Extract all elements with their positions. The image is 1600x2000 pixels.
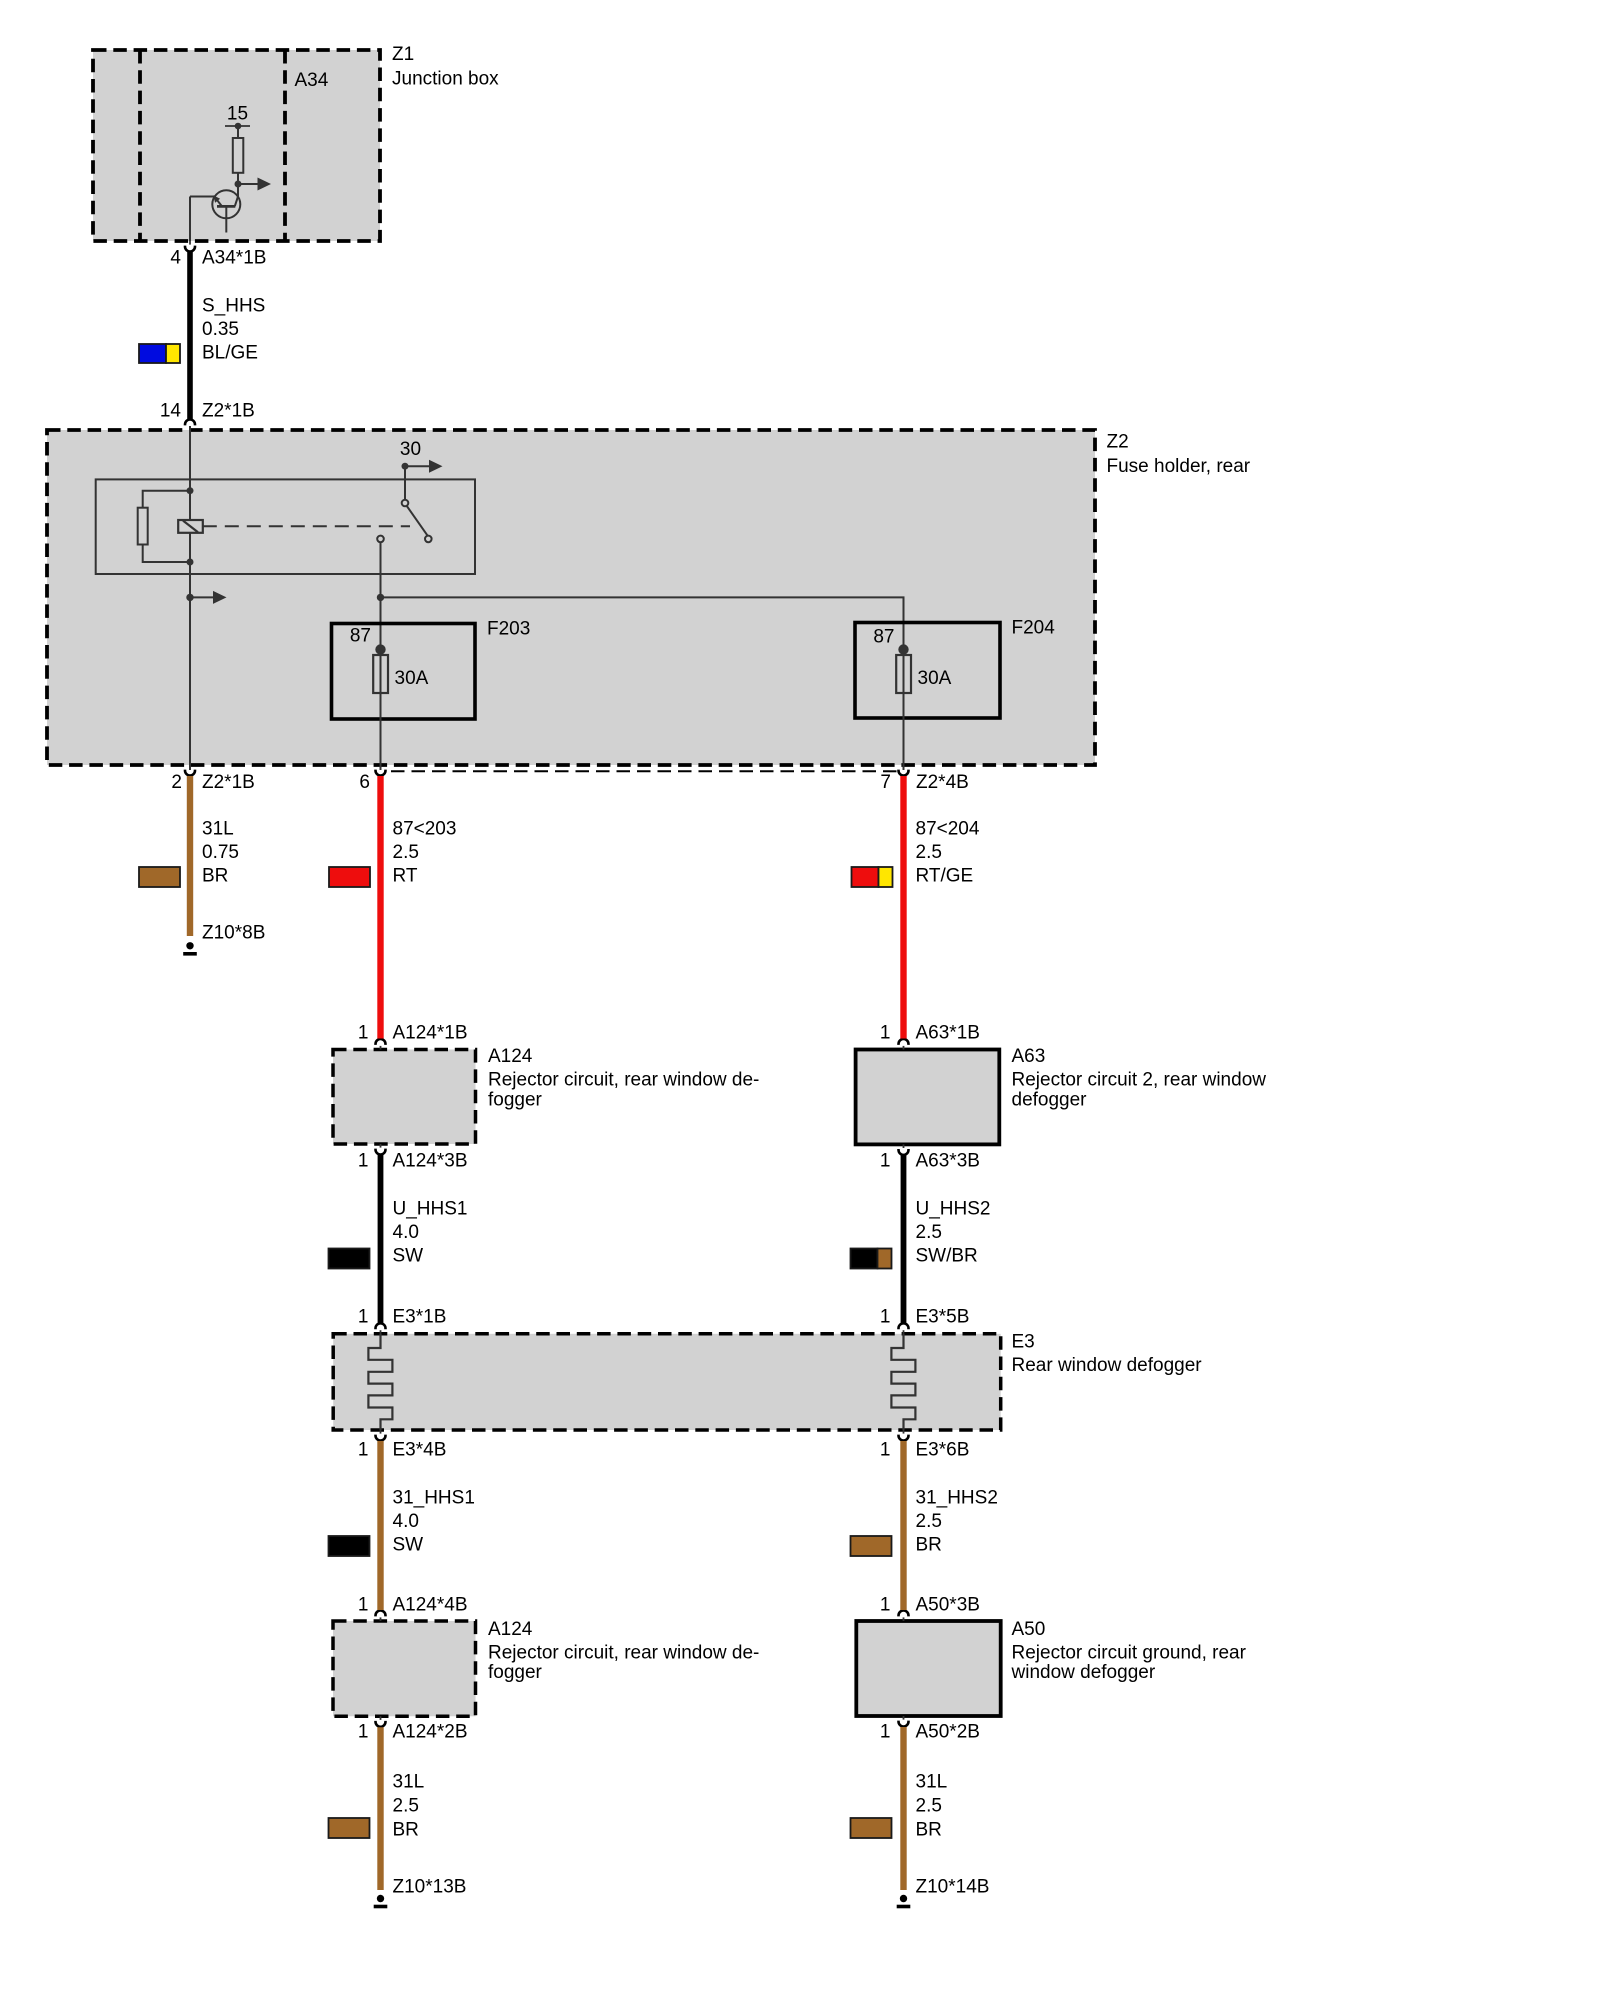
svg-text:A34: A34 — [295, 70, 329, 91]
svg-text:31_HHS1: 31_HHS1 — [393, 1488, 475, 1509]
svg-text:A124: A124 — [488, 1046, 533, 1067]
svg-text:Fuse holder, rear: Fuse holder, rear — [1107, 456, 1251, 477]
svg-text:E3*6B: E3*6B — [916, 1440, 970, 1461]
svg-text:A63: A63 — [1012, 1046, 1046, 1067]
svg-text:31_HHS2: 31_HHS2 — [916, 1488, 998, 1509]
svg-text:RT/GE: RT/GE — [916, 866, 974, 887]
svg-text:Junction box: Junction box — [392, 69, 499, 90]
svg-text:U_HHS2: U_HHS2 — [916, 1199, 991, 1220]
svg-text:2: 2 — [171, 772, 182, 793]
svg-text:31L: 31L — [202, 819, 234, 840]
svg-text:1: 1 — [880, 1595, 891, 1616]
svg-text:A63*1B: A63*1B — [916, 1023, 980, 1044]
svg-text:A124*1B: A124*1B — [393, 1023, 468, 1044]
svg-text:2.5: 2.5 — [916, 1222, 942, 1243]
svg-text:E3: E3 — [1012, 1332, 1035, 1353]
svg-text:F203: F203 — [487, 619, 530, 640]
svg-text:30A: 30A — [395, 668, 429, 689]
svg-text:A34*1B: A34*1B — [202, 248, 266, 269]
svg-text:BR: BR — [393, 1820, 419, 1841]
svg-text:1: 1 — [358, 1151, 369, 1172]
svg-text:1: 1 — [358, 1307, 369, 1328]
svg-text:1: 1 — [880, 1151, 891, 1172]
svg-text:A124: A124 — [488, 1619, 533, 1640]
svg-text:Rejector circuit 2, rear windo: Rejector circuit 2, rear window — [1012, 1070, 1267, 1091]
svg-text:Z1: Z1 — [392, 44, 414, 65]
svg-text:BR: BR — [916, 1535, 942, 1556]
svg-text:S_HHS: S_HHS — [202, 296, 265, 317]
svg-text:1: 1 — [358, 1722, 369, 1743]
svg-text:A50: A50 — [1012, 1619, 1046, 1640]
svg-text:fogger: fogger — [488, 1662, 543, 1683]
svg-text:E3*1B: E3*1B — [393, 1307, 447, 1328]
svg-text:Rejector circuit, rear window: Rejector circuit, rear window de- — [488, 1070, 759, 1091]
svg-text:14: 14 — [160, 401, 182, 422]
svg-text:87<204: 87<204 — [916, 819, 980, 840]
svg-text:1: 1 — [358, 1595, 369, 1616]
svg-text:0.35: 0.35 — [202, 319, 239, 340]
svg-text:87: 87 — [350, 626, 371, 647]
svg-text:87<203: 87<203 — [393, 819, 457, 840]
svg-text:Z2*4B: Z2*4B — [916, 772, 969, 793]
svg-text:Rejector circuit, rear window: Rejector circuit, rear window de- — [488, 1642, 759, 1663]
svg-text:1: 1 — [880, 1307, 891, 1328]
svg-text:6: 6 — [359, 772, 370, 793]
svg-text:RT: RT — [393, 866, 418, 887]
svg-text:15: 15 — [227, 104, 248, 125]
svg-text:2.5: 2.5 — [916, 842, 942, 863]
svg-text:31L: 31L — [393, 1772, 425, 1793]
svg-text:A124*2B: A124*2B — [393, 1722, 468, 1743]
svg-text:4.0: 4.0 — [393, 1511, 419, 1532]
svg-text:7: 7 — [880, 772, 891, 793]
svg-text:BL/GE: BL/GE — [202, 343, 258, 364]
svg-text:SW/BR: SW/BR — [916, 1246, 978, 1267]
svg-text:Z2*1B: Z2*1B — [202, 401, 255, 422]
svg-text:2.5: 2.5 — [393, 842, 419, 863]
svg-text:Z10*8B: Z10*8B — [202, 923, 265, 944]
svg-text:87: 87 — [873, 627, 894, 648]
svg-text:4.0: 4.0 — [393, 1222, 419, 1243]
svg-text:BR: BR — [202, 866, 228, 887]
svg-text:defogger: defogger — [1012, 1090, 1088, 1111]
svg-text:U_HHS1: U_HHS1 — [393, 1199, 468, 1220]
svg-text:A124*3B: A124*3B — [393, 1151, 468, 1172]
svg-text:Z10*13B: Z10*13B — [393, 1877, 467, 1898]
svg-text:window defogger: window defogger — [1011, 1662, 1156, 1683]
svg-text:Rear window defogger: Rear window defogger — [1012, 1355, 1203, 1376]
svg-text:1: 1 — [880, 1440, 891, 1461]
svg-text:E3*4B: E3*4B — [393, 1440, 447, 1461]
svg-text:2.5: 2.5 — [916, 1511, 942, 1532]
svg-text:30: 30 — [400, 439, 421, 460]
svg-text:A124*4B: A124*4B — [393, 1595, 468, 1616]
svg-text:Z2*1B: Z2*1B — [202, 772, 255, 793]
svg-text:SW: SW — [393, 1535, 424, 1556]
svg-text:1: 1 — [358, 1023, 369, 1044]
svg-text:1: 1 — [880, 1722, 891, 1743]
svg-text:A63*3B: A63*3B — [916, 1151, 980, 1172]
svg-text:1: 1 — [880, 1023, 891, 1044]
svg-text:F204: F204 — [1012, 618, 1056, 639]
svg-text:2.5: 2.5 — [916, 1796, 942, 1817]
svg-text:30A: 30A — [918, 668, 952, 689]
svg-text:2.5: 2.5 — [393, 1796, 419, 1817]
svg-text:0.75: 0.75 — [202, 842, 239, 863]
svg-text:4: 4 — [170, 248, 181, 269]
svg-text:Z2: Z2 — [1107, 432, 1129, 453]
svg-text:A50*3B: A50*3B — [916, 1595, 980, 1616]
svg-text:SW: SW — [393, 1246, 424, 1267]
svg-text:E3*5B: E3*5B — [916, 1307, 970, 1328]
svg-text:Z10*14B: Z10*14B — [916, 1877, 990, 1898]
svg-text:1: 1 — [358, 1440, 369, 1461]
svg-text:BR: BR — [916, 1820, 942, 1841]
svg-text:A50*2B: A50*2B — [916, 1722, 980, 1743]
svg-text:31L: 31L — [916, 1772, 948, 1793]
svg-text:Rejector circuit ground, rear: Rejector circuit ground, rear — [1012, 1642, 1247, 1663]
svg-text:fogger: fogger — [488, 1090, 543, 1111]
